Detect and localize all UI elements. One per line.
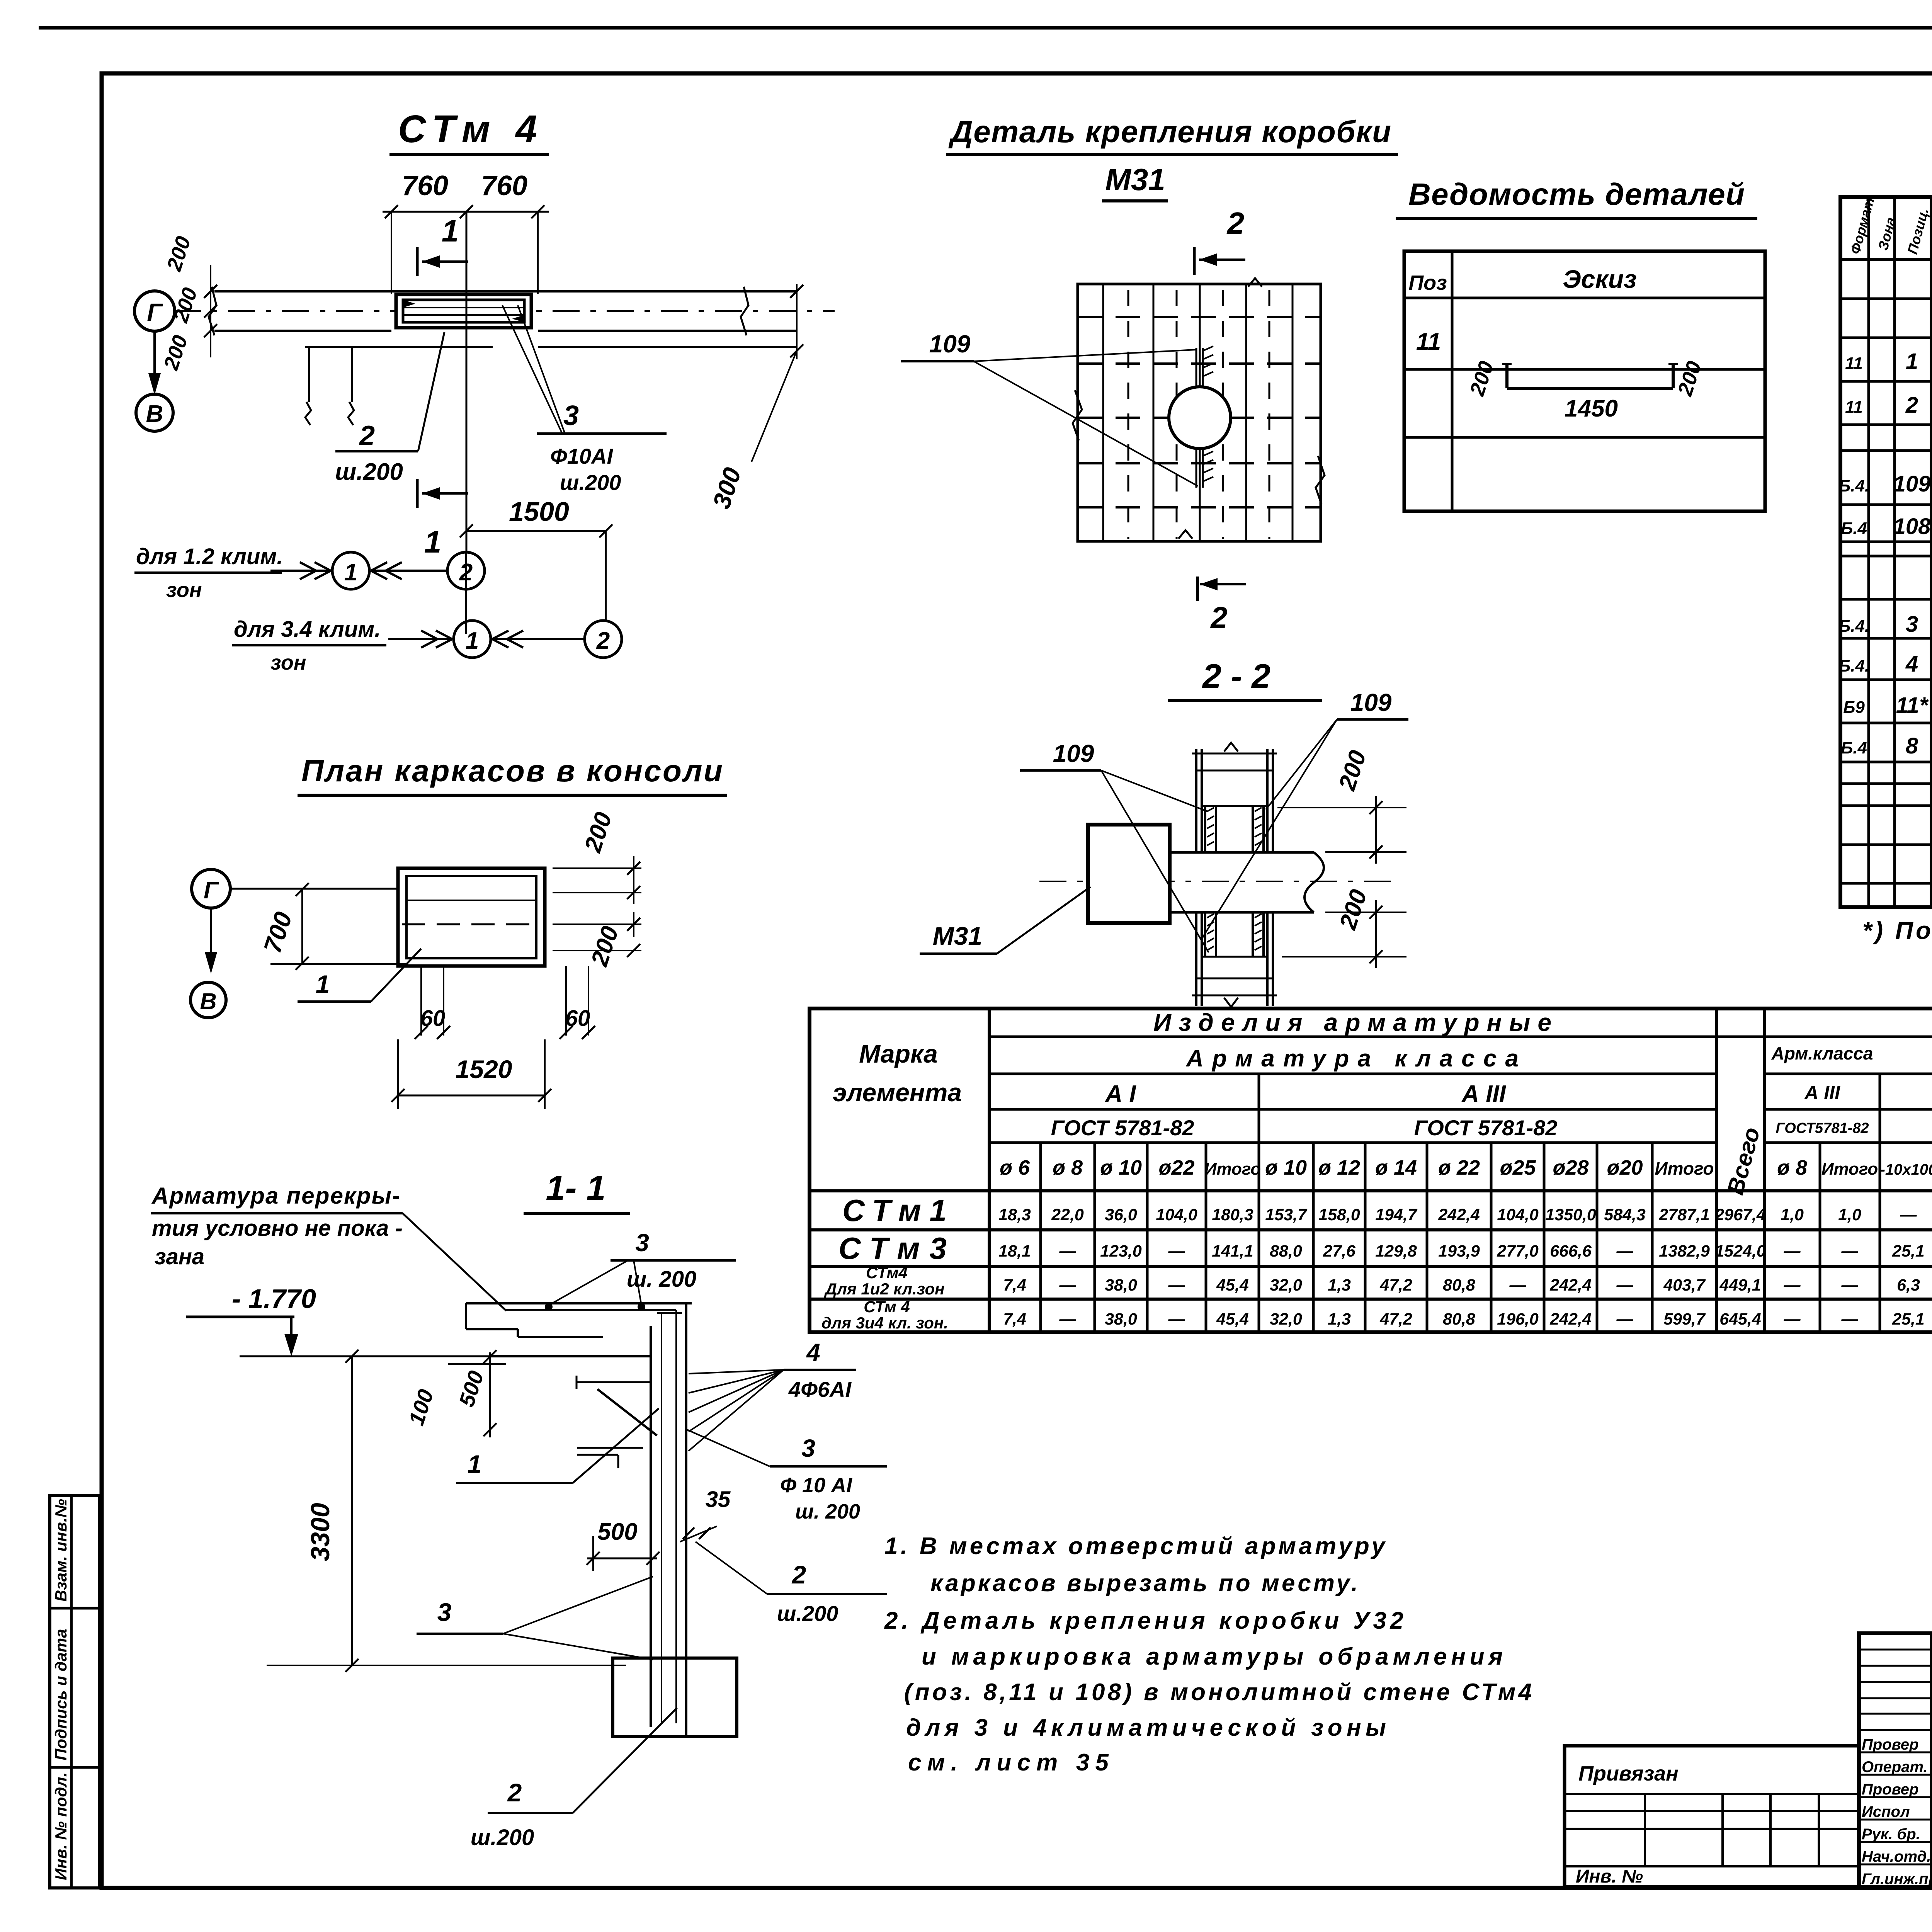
plan axis circle V [190, 982, 226, 1018]
svg-text:8: 8 [1906, 733, 1918, 759]
note armatura perekrytiya [151, 1183, 506, 1311]
console dim 60 left [415, 966, 450, 1039]
section mark 1 bottom [417, 479, 468, 559]
upper fixing plate 109 [1196, 346, 1213, 387]
svg-text:—: — [1784, 1242, 1801, 1260]
svg-text:45,4: 45,4 [1216, 1310, 1249, 1328]
wall break mark left [209, 287, 216, 335]
svg-text:Испол: Испол [1862, 1803, 1910, 1820]
svg-text:109: 109 [1053, 740, 1094, 767]
svg-text:Гл.инж.пр: Гл.инж.пр [1862, 1871, 1932, 1888]
title block row line above names [1859, 1729, 1932, 1731]
table title Vedomost detaley [1396, 177, 1757, 218]
svg-text:25,1: 25,1 [1892, 1310, 1925, 1328]
svg-text:Итого: Итого [1821, 1160, 1878, 1179]
svg-text:Подпись и дата: Подпись и дата [52, 1629, 70, 1760]
label 2 sh200 bottom of 1-1 [471, 1708, 677, 1850]
pos circle 1 row1 [332, 552, 369, 589]
svg-text:1520: 1520 [456, 1055, 512, 1083]
svg-text:11: 11 [1845, 354, 1863, 373]
svg-text:для 3.4 клим.: для 3.4 клим. [234, 617, 381, 642]
svg-text:СТм 4: СТм 4 [864, 1298, 910, 1316]
svg-text:80,8: 80,8 [1443, 1276, 1475, 1294]
svg-text:47,2: 47,2 [1379, 1310, 1412, 1328]
plan dim 200 bottom right [553, 912, 641, 969]
section title 1-1 [524, 1169, 630, 1213]
svg-text:Г: Г [204, 877, 219, 904]
axis circle G [134, 291, 175, 331]
svg-text:ш.200: ш.200 [335, 459, 403, 485]
vertical wall bars upper part 2-2 [1192, 743, 1277, 852]
svg-text:1. В местах отверстий ар: 1. В местах отверстий арматуру [884, 1533, 1386, 1560]
svg-text:Марка: Марка [859, 1039, 938, 1068]
svg-text:1: 1 [316, 970, 330, 998]
left stamp column box [50, 1495, 100, 1888]
svg-text:2967,4: 2967,4 [1714, 1206, 1766, 1224]
svg-text:193,9: 193,9 [1438, 1242, 1480, 1260]
label 4 4F6AI fan [689, 1338, 856, 1451]
svg-text:584,3: 584,3 [1604, 1206, 1646, 1224]
svg-text:СТм 4: СТм 4 [398, 107, 537, 151]
axis arrow G to V [148, 331, 161, 395]
svg-text:599,7: 599,7 [1663, 1310, 1706, 1328]
pos circle 1 row2 [454, 621, 491, 658]
svg-text:-10х100: -10х100 [1880, 1161, 1932, 1178]
svg-text:зон: зон [166, 578, 202, 602]
svg-text:Провер: Провер [1862, 1781, 1918, 1798]
privyazan table frame [1565, 1746, 1859, 1887]
svg-text:—: — [1168, 1242, 1185, 1260]
svg-text:60: 60 [565, 1006, 590, 1031]
svg-text:Б.4: Б.4 [1841, 738, 1867, 757]
svg-text:3: 3 [1906, 612, 1918, 637]
svg-text:1: 1 [1906, 349, 1918, 374]
svg-text:11: 11 [1416, 328, 1441, 355]
arrow circle2 to circle1 row1 [371, 562, 447, 579]
console frame inner rect [406, 876, 536, 958]
spec row 108 [1841, 502, 1932, 540]
vedomost col Poz divider [1451, 251, 1454, 511]
svg-text:В: В [200, 988, 216, 1014]
svg-text:141,1: 141,1 [1212, 1242, 1253, 1260]
svg-text:1450: 1450 [1565, 395, 1618, 422]
left stamp cell divider 2 [50, 1766, 100, 1769]
svg-text:80,8: 80,8 [1443, 1310, 1475, 1328]
wall plan top edge [214, 290, 797, 293]
label 109 left of 2-2 [1020, 740, 1209, 952]
label 3 sh200 top of 1-1 [545, 1229, 736, 1311]
svg-text:Инв. №: Инв. № [1576, 1866, 1643, 1887]
svg-text:88,0: 88,0 [1270, 1242, 1302, 1260]
svg-text:1: 1 [468, 1450, 482, 1478]
svg-text:11: 11 [1845, 398, 1863, 417]
label 1 leader 1-1 [456, 1408, 659, 1483]
svg-text:27,6: 27,6 [1323, 1242, 1356, 1260]
svg-text:зана: зана [155, 1244, 204, 1269]
left dim line 200s [204, 265, 217, 357]
svg-text:2: 2 [1210, 600, 1227, 634]
svg-text:47,2: 47,2 [1379, 1276, 1412, 1294]
svg-text:32,0: 32,0 [1270, 1310, 1302, 1328]
svg-text:38,0: 38,0 [1105, 1276, 1137, 1294]
svg-text:1350,0: 1350,0 [1545, 1206, 1596, 1224]
big table outer frame [810, 1009, 1932, 1332]
console inner line [406, 900, 536, 901]
svg-text:Рук. бр.: Рук. бр. [1862, 1826, 1920, 1843]
svg-text:Итого: Итого [1204, 1160, 1261, 1179]
svg-text:А III: А III [1461, 1081, 1506, 1107]
svg-text:каркасов вырезать по месту: каркасов вырезать по месту. [930, 1570, 1358, 1597]
svg-text:500: 500 [597, 1519, 637, 1545]
arrow to circle 1 row1 [270, 562, 331, 579]
section title 2-2 [1168, 657, 1322, 701]
svg-text:1: 1 [466, 628, 479, 654]
svg-text:4: 4 [1905, 651, 1918, 677]
svg-text:32,0: 32,0 [1270, 1276, 1302, 1294]
svg-text:ш.200: ш.200 [560, 470, 621, 495]
label 109 with leaders [901, 330, 1198, 486]
svg-text:60: 60 [420, 1006, 446, 1031]
line circle2 row1 up [465, 552, 467, 634]
svg-text:для 1.2 клим.: для 1.2 клим. [136, 544, 283, 569]
svg-text:ГОСТ5781-82: ГОСТ5781-82 [1776, 1120, 1869, 1136]
vedomost row line 2 [1404, 436, 1765, 439]
title block signature names [1862, 1735, 1932, 1888]
section mark 1 top [417, 214, 468, 276]
dim 200 upper right of 2-2 [1277, 747, 1406, 864]
console dim 1520 [391, 1039, 551, 1109]
wall right face 1-1 [685, 1303, 687, 1735]
right wall end dim 300 [707, 284, 803, 512]
view title CTm4 [389, 107, 549, 155]
svg-text:242,4: 242,4 [1549, 1276, 1592, 1294]
svg-text:2787,1: 2787,1 [1658, 1206, 1710, 1224]
svg-text:3: 3 [801, 1434, 815, 1462]
wall plan bottom edge right of console [538, 330, 797, 332]
svg-text:—: — [1784, 1276, 1801, 1294]
note dlya 1 2 klim zon [134, 544, 283, 602]
svg-text:ø 12: ø 12 [1318, 1156, 1360, 1179]
svg-text:ø25: ø25 [1500, 1156, 1536, 1179]
svg-text:ш.200: ш.200 [471, 1825, 534, 1850]
label 1 leader console [298, 949, 421, 1002]
lower fixing plate 109 [1196, 449, 1213, 488]
svg-text:22,0: 22,0 [1051, 1206, 1084, 1224]
left stamp cell divider 1 [50, 1607, 100, 1610]
level line [240, 1355, 651, 1357]
svg-text:—: — [1841, 1276, 1859, 1294]
svg-text:Нач.отд.: Нач.отд. [1862, 1848, 1931, 1865]
svg-text:Привязан: Привязан [1578, 1762, 1679, 1785]
detail title M31 [1102, 162, 1168, 201]
svg-text:36,0: 36,0 [1105, 1206, 1137, 1224]
svg-text:ГОСТ 5781-82: ГОСТ 5781-82 [1414, 1116, 1558, 1140]
svg-text:—: — [1900, 1206, 1917, 1224]
svg-text:104,0: 104,0 [1156, 1206, 1197, 1224]
dim line 760+760 [383, 205, 549, 294]
console dim 60 right [560, 966, 595, 1039]
center section line 1-1 [466, 212, 468, 552]
svg-text:—: — [1059, 1276, 1077, 1294]
label 3 F10AI sh200 [502, 305, 667, 495]
sketch bracket pos 11 [1502, 363, 1678, 388]
console reinforcement box [396, 294, 531, 328]
svg-text:129,8: 129,8 [1375, 1242, 1417, 1260]
svg-text:45,4: 45,4 [1216, 1276, 1249, 1294]
svg-text:3: 3 [437, 1598, 452, 1626]
note dlya 3 4 klim zon [232, 617, 386, 674]
svg-text:2: 2 [596, 628, 610, 654]
svg-text:38,0: 38,0 [1105, 1310, 1137, 1328]
svg-text:—: — [1168, 1276, 1185, 1294]
svg-text:104,0: 104,0 [1497, 1206, 1539, 1224]
svg-text:Деталь крепления коробки: Деталь крепления коробки [948, 114, 1391, 149]
label 3 F10AI sh200 right of 1-1 [687, 1430, 887, 1523]
svg-text:ø 14: ø 14 [1375, 1156, 1417, 1179]
pos circle 2 row2 [585, 621, 622, 658]
svg-text:3: 3 [635, 1229, 649, 1257]
small tee 1-1 [577, 1448, 643, 1468]
svg-text:7,4: 7,4 [1003, 1310, 1026, 1328]
svg-text:1500: 1500 [509, 497, 569, 527]
left stamp inner vertical [70, 1495, 73, 1888]
svg-text:1,0: 1,0 [1838, 1206, 1861, 1224]
svg-text:М31: М31 [933, 922, 982, 950]
svg-text:242,4: 242,4 [1438, 1206, 1480, 1224]
svg-text:Провер: Провер [1862, 1736, 1918, 1753]
svg-text:Ф 10 АI: Ф 10 АI [780, 1474, 852, 1497]
svg-text:—: — [1841, 1310, 1859, 1328]
svg-text:153,7: 153,7 [1265, 1206, 1308, 1224]
svg-text:109: 109 [1893, 471, 1931, 497]
svg-text:109: 109 [929, 330, 971, 358]
svg-text:18,1: 18,1 [998, 1242, 1031, 1260]
svg-text:для 3и4 кл. зон.: для 3и4 кл. зон. [821, 1314, 948, 1332]
svg-text:—: — [1059, 1310, 1077, 1328]
svg-text:449,1: 449,1 [1719, 1276, 1761, 1294]
dim 200 lower right of 2-2 [1282, 886, 1406, 968]
spec row 109 [1838, 460, 1932, 497]
title block outer frame [1859, 1633, 1932, 1887]
svg-text:ø28: ø28 [1553, 1156, 1588, 1179]
spec table outer frame [1840, 197, 1932, 907]
plan title Plan karkasov v konsoli [298, 753, 727, 795]
svg-text:—: — [1616, 1310, 1634, 1328]
svg-text:План каркасов в консоли: План каркасов в консоли [301, 753, 723, 788]
dim 500 rotated [448, 1350, 506, 1437]
svg-text:18,3: 18,3 [998, 1206, 1031, 1224]
svg-text:2. Деталь крепления коро: 2. Деталь крепления коробки У32 [884, 1607, 1403, 1634]
plan dim 700 [258, 883, 406, 970]
big table data row lines [810, 1191, 1932, 1299]
svg-text:ø 8: ø 8 [1053, 1156, 1083, 1179]
title block name rows [1859, 1752, 1932, 1864]
svg-text:108: 108 [1893, 514, 1931, 539]
svg-text:—: — [1784, 1310, 1801, 1328]
svg-text:123,0: 123,0 [1100, 1242, 1142, 1260]
section mark 2 top of M31 [1194, 206, 1245, 275]
big table vsego col lines [1716, 1009, 1765, 1332]
svg-text:1,3: 1,3 [1328, 1310, 1351, 1328]
svg-text:Изделия арматурные: Изделия арматурные [1153, 1009, 1551, 1036]
svg-text:645,4: 645,4 [1719, 1310, 1761, 1328]
svg-text:1- 1: 1- 1 [546, 1169, 605, 1207]
svg-text:ø 10: ø 10 [1100, 1156, 1142, 1179]
svg-text:Арм.класса: Арм.класса [1771, 1043, 1873, 1063]
svg-text:Операт.: Операт. [1862, 1759, 1928, 1776]
wall lower ledge left [305, 346, 493, 348]
wall lower ledge right [538, 346, 797, 348]
svg-text:109: 109 [1350, 689, 1392, 716]
svg-text:2: 2 [1226, 206, 1245, 240]
svg-text:—: — [1841, 1242, 1859, 1260]
svg-text:—: — [1059, 1242, 1077, 1260]
svg-text:196,0: 196,0 [1497, 1310, 1539, 1328]
svg-text:ø 8: ø 8 [1777, 1156, 1807, 1179]
svg-text:403,7: 403,7 [1663, 1276, 1706, 1294]
svg-text:194,7: 194,7 [1375, 1206, 1418, 1224]
detail title Detal krepleniya korobki [946, 114, 1398, 155]
svg-text:ø 22: ø 22 [1438, 1156, 1480, 1179]
horizontal slab 2-2 [1039, 852, 1395, 912]
plan axis circle G [192, 869, 230, 908]
big table size column lines [1041, 1074, 1932, 1332]
svg-text:180,3: 180,3 [1212, 1206, 1253, 1224]
svg-text:2: 2 [791, 1560, 806, 1589]
title block signature columns [1931, 1633, 1932, 1887]
column tee below wall [305, 347, 354, 425]
spec table column lines [1869, 197, 1932, 907]
spec table header bottom line [1840, 258, 1932, 261]
vedomost row line 1 [1404, 368, 1765, 371]
svg-text:25,1: 25,1 [1892, 1242, 1925, 1260]
footing block 1-1 [613, 1658, 737, 1736]
mesh grid square [1073, 278, 1325, 541]
label 2 sh200 right of 1-1 [696, 1542, 887, 1626]
vertical wall bars lower part 2-2 [1192, 912, 1277, 1007]
arrow to circle 1 row2 [388, 631, 452, 648]
svg-text:см. лист 35: см. лист 35 [908, 1749, 1109, 1776]
vedomost table frame [1404, 251, 1765, 511]
svg-text:ø 10: ø 10 [1265, 1156, 1307, 1179]
svg-text:Арматура перекры-: Арматура перекры- [151, 1183, 400, 1209]
console dashed axis [402, 923, 541, 925]
svg-text:Б.4: Б.4 [1841, 519, 1867, 538]
svg-text:А I: А I [1104, 1081, 1136, 1107]
big table row CTm4 3i4 label [821, 1298, 948, 1332]
axis dash-dot line G [174, 310, 835, 312]
svg-text:Ведомость деталей: Ведомость деталей [1408, 177, 1745, 211]
box hole circle [1169, 387, 1231, 449]
arrow circle2 to circle1 row2 [492, 631, 585, 648]
spec table row lines [1840, 299, 1932, 883]
svg-text:7,4: 7,4 [1003, 1276, 1026, 1294]
svg-text:1: 1 [424, 525, 442, 559]
svg-text:- 1.770: - 1.770 [232, 1284, 316, 1314]
svg-text:ø 6: ø 6 [1000, 1156, 1030, 1179]
svg-text:ø22: ø22 [1158, 1156, 1194, 1179]
svg-text:277,0: 277,0 [1497, 1242, 1539, 1260]
wall break mark right [741, 287, 748, 335]
dim 3300 [267, 1350, 626, 1672]
svg-text:1,3: 1,3 [1328, 1276, 1351, 1294]
svg-text:1: 1 [442, 214, 459, 248]
vedomost header underline [1404, 297, 1765, 299]
svg-text:760: 760 [481, 170, 527, 201]
svg-text:М31: М31 [1105, 162, 1165, 197]
svg-text:158,0: 158,0 [1318, 1206, 1360, 1224]
svg-text:2 - 2: 2 - 2 [1202, 657, 1270, 695]
lower fixing plates 109 in 2-2 [1202, 912, 1267, 957]
svg-text:4Ф6АI: 4Ф6АI [788, 1377, 852, 1401]
svg-text:Эскиз: Эскиз [1563, 265, 1637, 293]
svg-text:—: — [1509, 1276, 1527, 1294]
svg-text:3: 3 [563, 400, 579, 431]
svg-text:Поз: Поз [1408, 271, 1447, 294]
svg-text:В: В [146, 401, 163, 427]
svg-text:ø20: ø20 [1607, 1156, 1643, 1179]
svg-text:6,3: 6,3 [1897, 1276, 1920, 1294]
axis circle V [136, 394, 173, 431]
svg-text:Ф10АI: Ф10АI [550, 444, 613, 468]
svg-text:—: — [1616, 1242, 1634, 1260]
plan axis line from G [231, 888, 398, 890]
svg-text:1524,0: 1524,0 [1715, 1242, 1766, 1260]
svg-text:—: — [1616, 1276, 1634, 1294]
label 109 right of 2-2 [1202, 689, 1408, 939]
svg-text:1: 1 [344, 559, 357, 586]
label M31 leader 2-2 [920, 887, 1090, 954]
svg-text:242,4: 242,4 [1549, 1310, 1592, 1328]
svg-text:элемента: элемента [833, 1078, 962, 1107]
svg-text:4: 4 [806, 1338, 820, 1366]
console frame outer rect [398, 868, 545, 966]
console bracket 1-1 [577, 1376, 657, 1435]
sheet outer top border line [39, 26, 1932, 30]
svg-text:2: 2 [359, 420, 375, 451]
svg-text:2: 2 [507, 1778, 522, 1807]
label 3 mid leader 1-1 [417, 1577, 653, 1660]
plan dim 200 top right [553, 809, 641, 904]
top slab lines 1-1 [466, 1303, 692, 1356]
svg-text:1,0: 1,0 [1781, 1206, 1804, 1224]
svg-text:666,6: 666,6 [1550, 1242, 1592, 1260]
svg-text:СТм4: СТм4 [866, 1264, 908, 1282]
svg-text:ш. 200: ш. 200 [795, 1500, 860, 1523]
svg-text:Б.4.: Б.4. [1838, 656, 1869, 675]
upper fixing plates 109 in 2-2 [1202, 806, 1267, 852]
section mark 2 below M31 detail [1197, 577, 1246, 634]
svg-text:—: — [1168, 1310, 1185, 1328]
plan axis arrow [205, 908, 217, 974]
wall rebar lines 1-1 [657, 1310, 682, 1723]
dim 500 horizontal [587, 1519, 660, 1571]
privyazan column lines [1645, 1794, 1819, 1866]
svg-text:Инв. № подл.: Инв. № подл. [52, 1772, 70, 1880]
dim 1500 [460, 497, 612, 621]
big table header Marka elementa [833, 1039, 962, 1107]
svg-text:Б.4.: Б.4. [1838, 617, 1869, 636]
pos circle 2 row1 [447, 552, 485, 589]
big table row CTm4 1i2 label [824, 1264, 945, 1298]
svg-text:ш.200: ш.200 [777, 1601, 838, 1626]
svg-text:Итого: Итого [1655, 1158, 1714, 1179]
svg-text:зон: зон [270, 651, 306, 674]
svg-text:Б.4.: Б.4. [1838, 476, 1869, 495]
level mark -1.770 [186, 1284, 316, 1356]
dim 35 [680, 1487, 731, 1542]
svg-text:35: 35 [706, 1487, 731, 1512]
